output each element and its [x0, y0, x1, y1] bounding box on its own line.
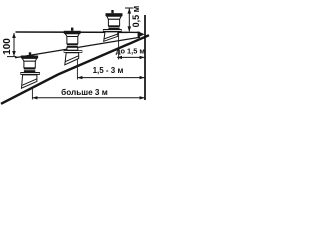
- ridge level horizontal line: [16, 31, 141, 33]
- svg-text:1,5 - 3 м: 1,5 - 3 м: [93, 66, 124, 75]
- chimney 1.5-3 m from ridge (middle): [64, 28, 83, 65]
- extension line below middle chimney: [76, 60, 78, 80]
- chimney near ridge (top right): [103, 10, 123, 41]
- svg-text:больше 3 м: больше 3 м: [61, 87, 108, 97]
- base step line: [65, 56, 78, 62]
- roof slope line: [1, 35, 149, 104]
- base block: [22, 75, 37, 88]
- dimension 0,5 m vertical line: [128, 9, 130, 32]
- drip slab: [103, 29, 122, 32]
- extension line below left chimney: [31, 88, 33, 100]
- svg-text:0,5 м: 0,5 м: [131, 5, 141, 27]
- ridge vertical extension line: [144, 15, 146, 100]
- shaft lower segment: [67, 47, 78, 50]
- brick bands: [24, 68, 35, 70]
- cornice neck: [107, 16, 121, 19]
- cap slab: [21, 56, 38, 59]
- base step line: [22, 79, 37, 85]
- base step line: [104, 34, 117, 39]
- drip slab: [64, 50, 83, 53]
- extension line below top chimney: [118, 33, 120, 60]
- dimension 100 bottom tick: [7, 56, 17, 58]
- 10 degree line: [15, 37, 140, 58]
- dimension line up to 1.5 m: [117, 56, 144, 58]
- base block: [65, 53, 79, 65]
- brick bands: [67, 44, 78, 46]
- cornice neck: [65, 34, 79, 37]
- shaft: [67, 37, 78, 44]
- drip slab: [20, 72, 40, 75]
- cap slab: [106, 13, 123, 16]
- svg-text:100: 100: [2, 38, 13, 55]
- cornice neck: [22, 58, 36, 61]
- shaft: [108, 19, 119, 26]
- flue stub: [71, 28, 73, 31]
- dimension 0,5 m top arrow: [128, 8, 132, 13]
- dimension 0,5 m bottom arrow: [128, 26, 132, 31]
- shaft: [24, 61, 35, 68]
- flue stub: [29, 52, 31, 55]
- dimension 100 bottom arrow: [12, 51, 16, 56]
- dimension line more than 3 m: [33, 97, 145, 99]
- dimension 100 vertical line: [13, 33, 15, 56]
- dimension 0,5 m top tick: [125, 7, 134, 9]
- chimney more than 3 m from ridge (left): [20, 52, 40, 88]
- base block: [104, 32, 118, 41]
- brick bands: [108, 26, 119, 27]
- dimension line 1.5-3 m: [78, 77, 145, 79]
- arrowhead at ridge point: [138, 31, 145, 37]
- dimension 100 top arrow: [12, 33, 16, 38]
- flue stub: [111, 10, 113, 13]
- cap slab: [64, 31, 81, 34]
- svg-text:до 1,5 м: до 1,5 м: [116, 47, 145, 56]
